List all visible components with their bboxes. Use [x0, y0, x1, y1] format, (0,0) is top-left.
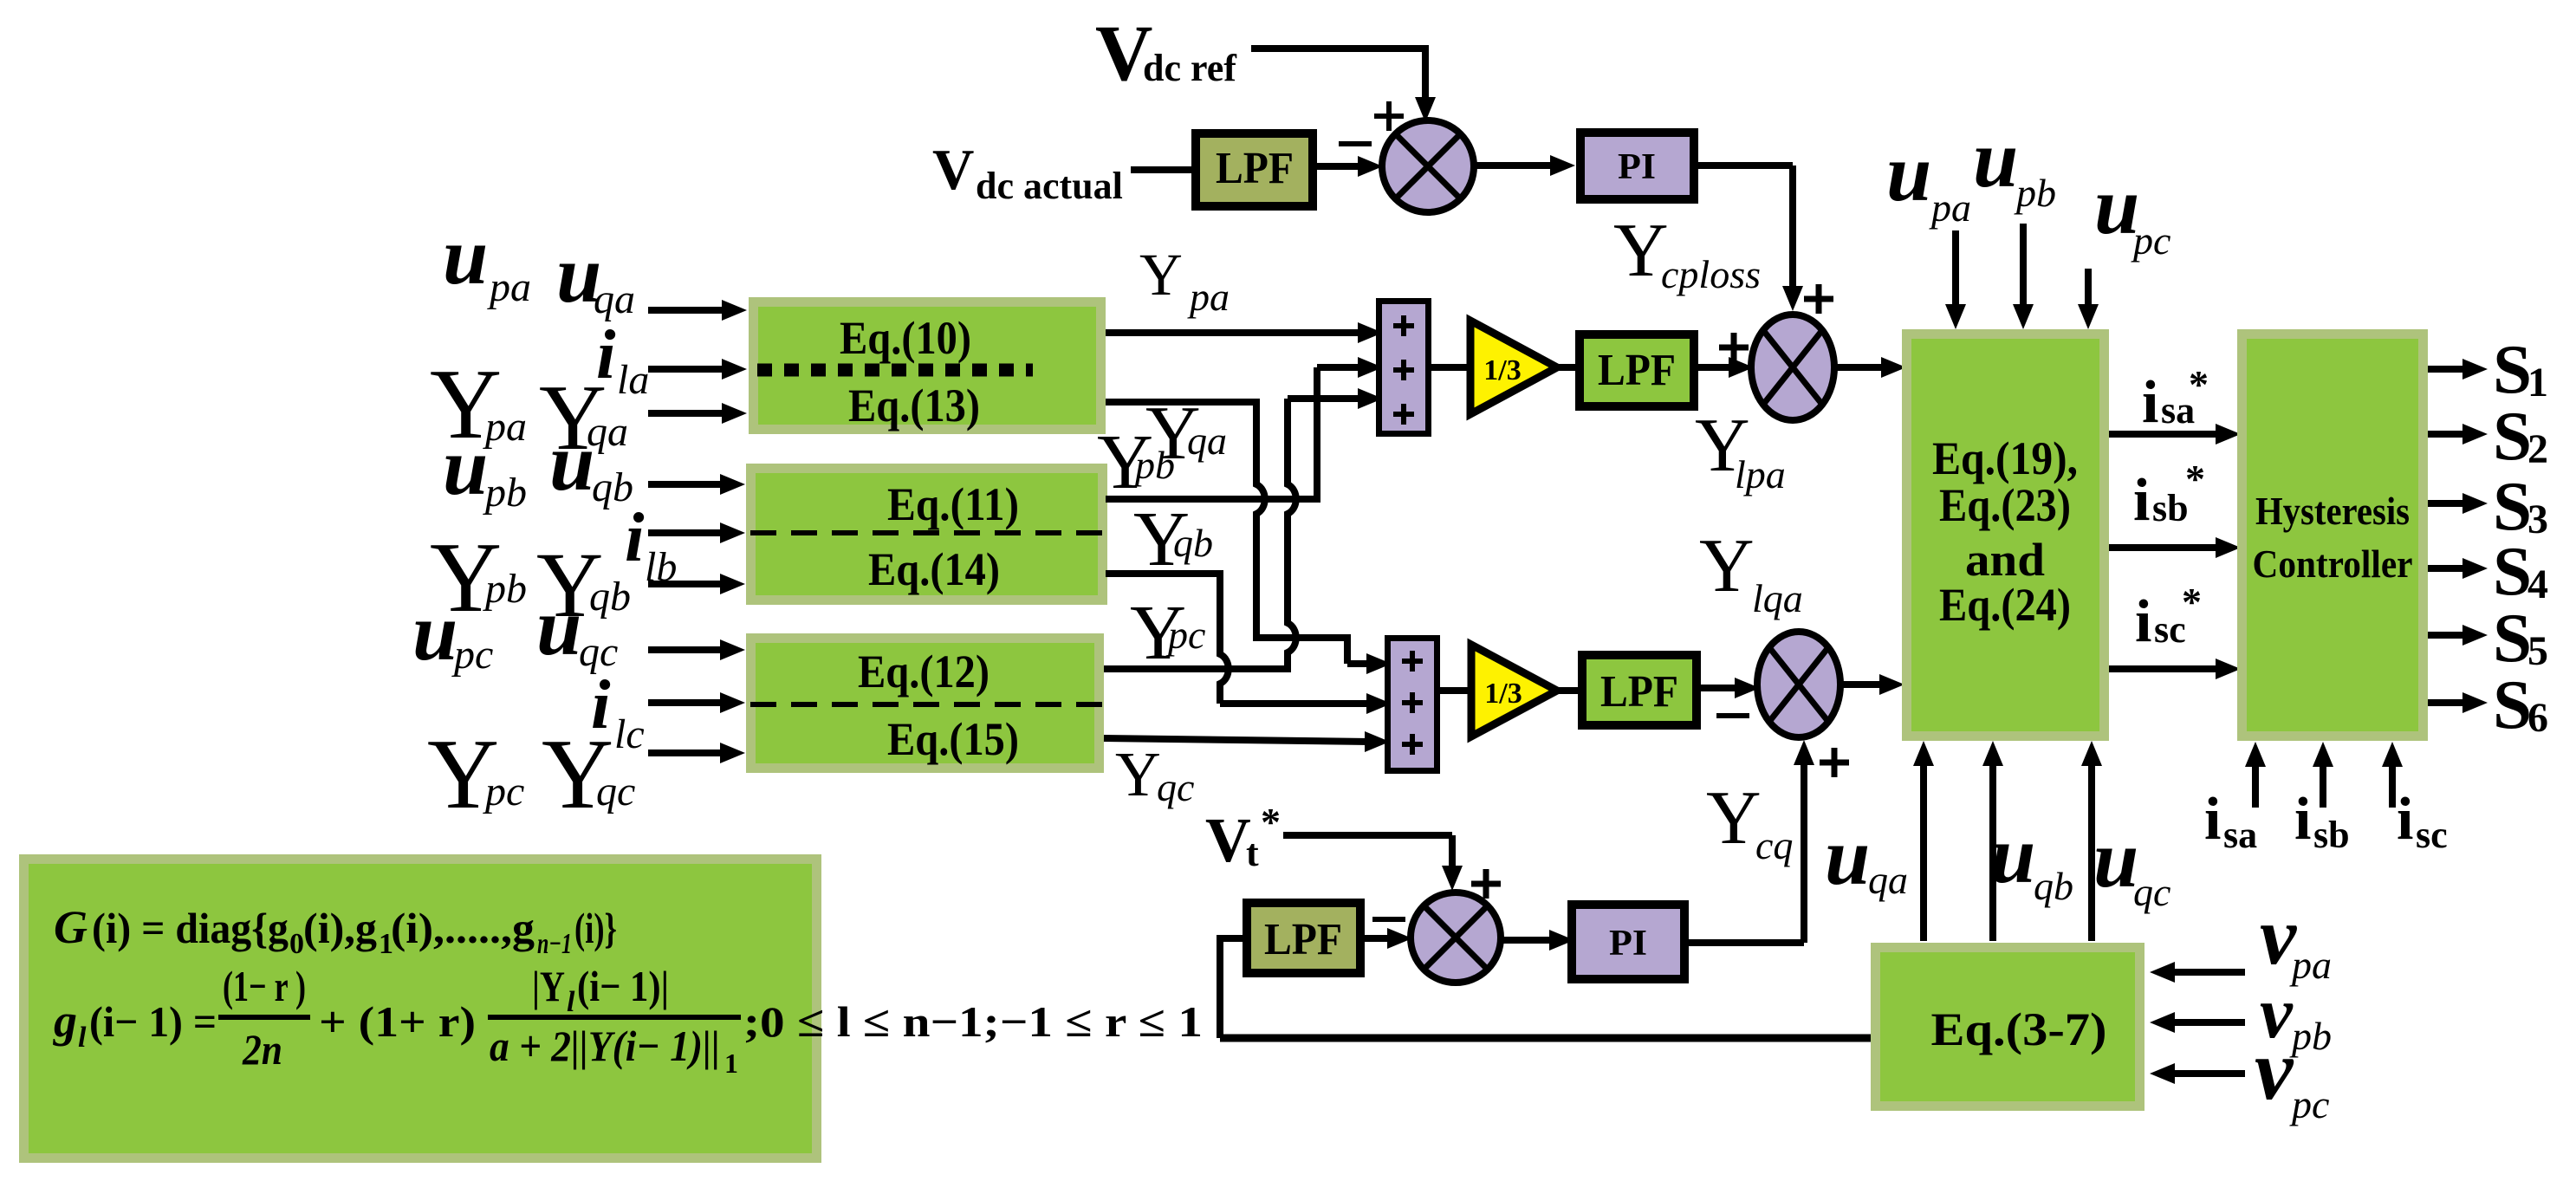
svg-text:pa: pa — [487, 264, 531, 310]
svg-text:qc: qc — [2133, 870, 2170, 914]
svg-text:Eq.(14): Eq.(14) — [868, 543, 1000, 595]
svg-text:S: S — [2493, 397, 2532, 475]
label S5 — [2493, 599, 2548, 677]
label Y_qb (input) — [536, 535, 631, 637]
svg-text:(i) = diag{g: (i) = diag{g — [92, 904, 289, 952]
svg-text:qb: qb — [1173, 521, 1213, 565]
summing block B2 (q-channel +++) — [1388, 639, 1437, 771]
svg-text:u: u — [536, 582, 581, 672]
svg-text:qa: qa — [1187, 419, 1227, 463]
svg-text:qa: qa — [1868, 858, 1908, 902]
svg-text:Eq.(11): Eq.(11) — [887, 478, 1019, 530]
label i_sb (bottom) — [2294, 786, 2350, 856]
label S2 — [2493, 397, 2548, 475]
svg-text:pc: pc — [1165, 613, 1205, 657]
arrow u_pc into Eq.(19) box — [2078, 269, 2099, 329]
svg-text:6: 6 — [2527, 695, 2548, 741]
svg-text:V: V — [932, 138, 974, 202]
label v_pc — [2255, 1022, 2329, 1126]
label Y_qb (wire) — [1133, 496, 1213, 582]
label u_qa — [556, 230, 635, 322]
svg-text:1: 1 — [724, 1048, 738, 1079]
label S1 — [2493, 330, 2548, 408]
svg-text:(i),g: (i),g — [303, 904, 377, 952]
svg-text:pb: pb — [2289, 1014, 2332, 1058]
minus sign at summer S1 left — [1339, 141, 1372, 146]
svg-text:LPF: LPF — [1264, 915, 1342, 964]
wire S5 output — [2428, 625, 2488, 646]
wire B2 to gain 1/3 (b) — [1440, 687, 1473, 694]
wire LPF2b to multiplier M2 — [1697, 678, 1760, 698]
svg-text:pa: pa — [1929, 185, 1971, 230]
svg-text:Controller: Controller — [2253, 542, 2413, 586]
svg-text:i: i — [625, 498, 645, 576]
label i_sa (bottom) — [2204, 786, 2257, 856]
svg-text:+ (1+ r): + (1+ r) — [319, 997, 476, 1046]
svg-text:i: i — [2142, 369, 2158, 436]
svg-text:Eq.(23): Eq.(23) — [1939, 479, 2071, 531]
wire PI2 up to multiplier M2 (Y_cq path) — [1685, 740, 1814, 943]
svg-text:(i− 1) =: (i− 1) = — [89, 997, 217, 1046]
svg-text:pc: pc — [2131, 218, 2170, 263]
block Eq.(3-7) — [1876, 948, 2140, 1106]
label u_qc (bottom) — [2093, 814, 2170, 914]
svg-text:*: * — [2182, 580, 2202, 624]
arrow u_qa into Eq.(19) box bottom — [1913, 741, 1934, 941]
svg-text:qc: qc — [596, 769, 635, 814]
svg-text:Eq.(13): Eq.(13) — [848, 380, 980, 432]
svg-text:sa: sa — [2223, 814, 2257, 856]
arrow u_qc into Eq.(19) box bottom — [2081, 741, 2102, 941]
wire Y_pc to summing block B1 (with hops) — [1104, 388, 1383, 672]
block Eq.(11)/Eq.(14) — [751, 469, 1103, 600]
label u_qb — [549, 418, 633, 510]
svg-text:PI: PI — [1618, 147, 1656, 187]
svg-text:qc: qc — [1157, 765, 1194, 809]
svg-text:pc: pc — [2289, 1082, 2329, 1126]
wire LPF2a to multiplier M1 — [1695, 357, 1754, 378]
wire LPF1 to summer S1 — [1314, 156, 1383, 177]
summing block B1 (p-channel +++) — [1379, 302, 1429, 434]
svg-text:pc: pc — [451, 632, 493, 678]
svg-text:pb: pb — [1132, 443, 1175, 487]
svg-text:i: i — [2204, 786, 2221, 853]
block PI1 (purple PI controller) — [1580, 133, 1694, 199]
label i_sb* — [2133, 457, 2205, 534]
svg-text:i: i — [2294, 786, 2311, 853]
wire gain to LPF2a — [1555, 364, 1579, 371]
wire V_dc ref to summer S1 — [1251, 45, 1436, 122]
arrow u_pb into Eq.(19) box — [2013, 224, 2034, 329]
label u_qa (bottom) — [1825, 812, 1908, 902]
block LPF2b (green low pass filter) — [1582, 655, 1697, 725]
svg-text:LPF: LPF — [1598, 346, 1676, 395]
label u_pc — [412, 587, 493, 678]
dashed separator in Eq.(12)/(15) box — [750, 702, 1104, 707]
svg-text:(i− 1)|: (i− 1)| — [577, 962, 669, 1010]
svg-text:pa: pa — [1187, 275, 1230, 319]
label Y_qa (wire) — [1145, 392, 1227, 476]
input arrow 2 into Eq.(11)/(14) box — [648, 522, 745, 543]
svg-text:V: V — [1205, 805, 1251, 875]
svg-text:n−1: n−1 — [537, 928, 572, 960]
block LPF1 (olive low pass filter) — [1196, 133, 1313, 206]
svg-text:dc actual: dc actual — [976, 165, 1123, 207]
svg-text:S: S — [2493, 665, 2532, 743]
svg-text:|Υ: |Υ — [532, 962, 565, 1010]
label v_pb — [2260, 972, 2332, 1058]
svg-text:Eq.(24): Eq.(24) — [1939, 579, 2071, 631]
input arrow 3 into Eq.(10)/(13) box — [648, 403, 747, 424]
svg-text:g: g — [53, 995, 77, 1047]
wire summer S1 to PI1 — [1474, 155, 1575, 176]
svg-text:l: l — [78, 1022, 87, 1054]
label Y_cq — [1706, 776, 1793, 867]
block Hysteresis Controller — [2242, 334, 2424, 737]
svg-text:sc: sc — [2416, 814, 2448, 856]
svg-text:Y: Y — [1115, 739, 1161, 809]
wire B1 to gain 1/3 (a) — [1431, 364, 1473, 371]
label Y_qc (input) — [542, 719, 635, 829]
label i_la — [596, 315, 649, 403]
gain triangle 1/3 (q-channel) — [1471, 645, 1557, 737]
wire Y_pa to summing block B1 — [1106, 322, 1383, 343]
label i_lb — [625, 498, 677, 590]
arrow i_sa into hysteresis bottom — [2245, 742, 2266, 808]
svg-text:t: t — [1246, 832, 1259, 874]
svg-text:Y: Y — [1139, 242, 1183, 308]
wire i_sb* to hysteresis controller — [2109, 537, 2241, 558]
svg-text:*: * — [1261, 800, 1281, 844]
label u_pa — [443, 211, 531, 310]
label S4 — [2493, 532, 2548, 610]
wire S2 output — [2428, 424, 2488, 444]
svg-text:lqa: lqa — [1752, 576, 1803, 620]
wire gain to LPF2b — [1555, 687, 1580, 694]
label V_dc ref — [1095, 9, 1237, 97]
svg-text:pb: pb — [483, 470, 527, 516]
wire i_sc* to hysteresis controller — [2109, 659, 2241, 679]
svg-text:Y: Y — [1706, 776, 1762, 860]
minus sign at multiplier M2 left — [1716, 713, 1749, 718]
svg-text:u: u — [2093, 814, 2138, 905]
svg-text:1/3: 1/3 — [1484, 678, 1522, 710]
arrow u_pa into Eq.(19) box — [1945, 230, 1966, 329]
svg-text:sb: sb — [2313, 814, 2350, 856]
dotted separator in Eq.(10)/(13) box — [757, 364, 1033, 377]
wire multiplier M1 to Eq.(19) box — [1834, 357, 1906, 378]
wire i_sa* to hysteresis controller — [2109, 424, 2241, 444]
wire v_pc into Eq.(3-7) — [2150, 1063, 2245, 1084]
input arrow 1 into Eq.(11)/(14) box — [648, 474, 745, 495]
svg-text:Hysteresis: Hysteresis — [2255, 489, 2410, 533]
label Y_qa (input) — [539, 367, 628, 470]
svg-text:2n: 2n — [242, 1025, 282, 1074]
svg-text:*: * — [2189, 362, 2209, 406]
svg-text:pc: pc — [483, 769, 524, 814]
summer circle S2 (Vt error) — [1411, 892, 1501, 983]
wire V_t* to summer S2 — [1283, 835, 1463, 891]
wire S6 output — [2428, 692, 2488, 713]
svg-text:LPF: LPF — [1216, 144, 1294, 193]
svg-text:dc ref: dc ref — [1143, 47, 1237, 89]
svg-text:v: v — [2255, 1022, 2294, 1118]
wire multiplier M2 to Eq.(19) box — [1840, 674, 1904, 695]
wire Y_qc to summing block B2 — [1104, 731, 1390, 752]
svg-text:l: l — [567, 986, 575, 1018]
formula box G(i) and g_l(i-1) — [24, 860, 1204, 1158]
label Y_qc (wire) — [1115, 739, 1194, 809]
feedback wire Eq.(3-7) to LPF3 — [1220, 935, 1876, 1038]
svg-text:LPF: LPF — [1600, 667, 1678, 717]
wire summer S2 to PI2 — [1501, 930, 1574, 951]
svg-text:0: 0 — [289, 928, 304, 960]
wire v_pb into Eq.(3-7) — [2150, 1012, 2245, 1033]
label Y_pa (input) — [430, 349, 527, 459]
label i_sc* — [2135, 580, 2202, 655]
svg-text:lpa: lpa — [1735, 452, 1786, 496]
block Eq.(12)/Eq.(15) — [751, 639, 1100, 769]
label u_qb (bottom) — [1990, 810, 2073, 908]
block Eq.(10)/Eq.(13) — [754, 302, 1101, 432]
input arrow 2 into Eq.(10)/(13) box — [648, 359, 747, 380]
label Y_lqa — [1699, 524, 1803, 620]
svg-text:Eq.(10): Eq.(10) — [840, 312, 971, 364]
label u_pb — [443, 422, 527, 516]
arrow i_sb into hysteresis bottom — [2313, 742, 2333, 808]
svg-text:Y: Y — [1699, 524, 1755, 608]
svg-text:G: G — [54, 901, 88, 953]
label V_dc actual — [932, 138, 1123, 207]
svg-text:qb: qb — [589, 574, 631, 620]
plus sign at multiplier M1 top — [1804, 284, 1833, 314]
svg-text:la: la — [617, 357, 649, 403]
multiplier circle M2 (q-channel) — [1757, 632, 1840, 737]
svg-text:u: u — [1973, 114, 2018, 204]
plus sign at multiplier M1 left — [1719, 333, 1749, 362]
svg-text:(i),.....,g: (i),.....,g — [391, 904, 535, 952]
svg-text:pa: pa — [2289, 943, 2332, 987]
svg-text:Eq.(19),: Eq.(19), — [1932, 432, 2078, 484]
label Y_pa (wire) — [1139, 242, 1230, 319]
input arrow 1 into Eq.(10)/(13) box — [648, 300, 747, 321]
wire LPF3 to summer S2 — [1361, 928, 1412, 949]
wire Y_qa to summing block B2 (with hops) — [1106, 399, 1392, 674]
wire S1 output — [2428, 359, 2488, 380]
minus sign at summer S2 left — [1372, 917, 1405, 922]
wire S4 output — [2428, 558, 2488, 579]
label Y_cploss — [1613, 209, 1761, 296]
plus sign at multiplier M2 bottom — [1820, 748, 1849, 777]
multiplier circle M1 (p-channel) — [1751, 315, 1834, 420]
block LPF2a (green low pass filter) — [1580, 334, 1694, 406]
label Y_pc (input) — [427, 719, 524, 829]
svg-text:Eq.(12): Eq.(12) — [858, 646, 990, 698]
svg-text:i: i — [2397, 786, 2413, 853]
summer circle S1 (Vdc error) — [1382, 120, 1474, 212]
label Y_pb (input) — [430, 522, 527, 633]
label i_sc (bottom) — [2397, 786, 2448, 856]
plus sign at summer S1 top — [1374, 101, 1404, 131]
svg-text:a + 2||Υ(i− 1)||: a + 2||Υ(i− 1)|| — [490, 1022, 720, 1070]
block PI2 (purple PI controller) — [1572, 905, 1684, 979]
svg-text:qb: qb — [2034, 864, 2073, 908]
svg-text:cq: cq — [1755, 823, 1793, 867]
svg-text:i: i — [2133, 467, 2150, 534]
block Eq.(19) Eq.(23) and Eq.(24) — [1907, 334, 2105, 737]
label i_sa* — [2142, 362, 2209, 436]
svg-text:sb: sb — [2152, 487, 2189, 529]
label Y_pb (wire) — [1097, 419, 1175, 505]
svg-text:u: u — [412, 587, 457, 678]
wire Y_pb to summing block B1 — [1106, 357, 1383, 503]
input arrow 1 into Eq.(12)/(15) box — [648, 639, 745, 660]
wire S3 output — [2428, 493, 2488, 514]
svg-text:(1− r ): (1− r ) — [223, 962, 306, 1010]
svg-text:cploss: cploss — [1661, 252, 1761, 296]
label S6 — [2493, 665, 2548, 743]
label i_lc — [591, 665, 645, 757]
arrow u_qb into Eq.(19) box bottom — [1982, 741, 2003, 941]
label u_pa (top) — [1886, 128, 1971, 230]
input arrow 3 into Eq.(12)/(15) box — [648, 743, 745, 763]
label V_t_star — [1205, 800, 1281, 875]
label u_pb (top) — [1973, 114, 2056, 215]
svg-text:lc: lc — [614, 711, 645, 757]
wire V_dc actual to LPF1 — [1131, 166, 1194, 173]
svg-text:u: u — [443, 422, 488, 512]
svg-text:and: and — [1965, 534, 2045, 586]
gain triangle 1/3 (p-channel) — [1470, 321, 1557, 414]
svg-text:i: i — [2135, 588, 2151, 655]
svg-text:2: 2 — [2527, 426, 2548, 472]
svg-text:u: u — [1886, 128, 1931, 218]
svg-text:*: * — [2185, 457, 2205, 501]
svg-text:u: u — [443, 211, 488, 302]
input arrow 3 into Eq.(11)/(14) box — [648, 574, 745, 594]
label u_qc — [536, 582, 618, 675]
svg-text:;0 ≤ l ≤ n−1;−1 ≤ r ≤ 1: ;0 ≤ l ≤ n−1;−1 ≤ r ≤ 1 — [743, 997, 1203, 1046]
svg-text:Eq.(3-7): Eq.(3-7) — [1931, 1003, 2107, 1055]
svg-text:pb: pb — [2014, 171, 2056, 215]
svg-text:pb: pb — [483, 566, 527, 612]
svg-text:Eq.(15): Eq.(15) — [887, 713, 1019, 765]
svg-text:pa: pa — [483, 404, 527, 450]
label u_pc (top) — [2094, 161, 2170, 263]
svg-text:u: u — [1990, 810, 2035, 900]
wire Y_qb to summing block B2 (with hop) — [1106, 570, 1392, 714]
wire v_pa into Eq.(3-7) — [2150, 962, 2245, 983]
dashed separator in Eq.(11)/(14) box — [750, 530, 1107, 535]
block LPF3 (olive low pass filter) — [1247, 903, 1360, 973]
svg-text:u: u — [549, 418, 594, 508]
svg-text:1/3: 1/3 — [1483, 354, 1521, 386]
svg-text:(i)}: (i)} — [574, 904, 617, 952]
wire PI1 to multiplier M1 (Y_cploss path) — [1695, 165, 1803, 311]
svg-text:PI: PI — [1609, 924, 1647, 964]
svg-text:u: u — [1825, 812, 1870, 902]
label Y_pc (wire) — [1130, 590, 1205, 676]
label S3 — [2493, 467, 2548, 545]
arrow i_sc into hysteresis bottom — [2382, 742, 2403, 808]
plus sign at summer S2 top — [1471, 869, 1501, 899]
input arrow 2 into Eq.(12)/(15) box — [648, 692, 745, 713]
label v_pa — [2260, 890, 2332, 987]
label Y_lpa — [1695, 404, 1786, 496]
